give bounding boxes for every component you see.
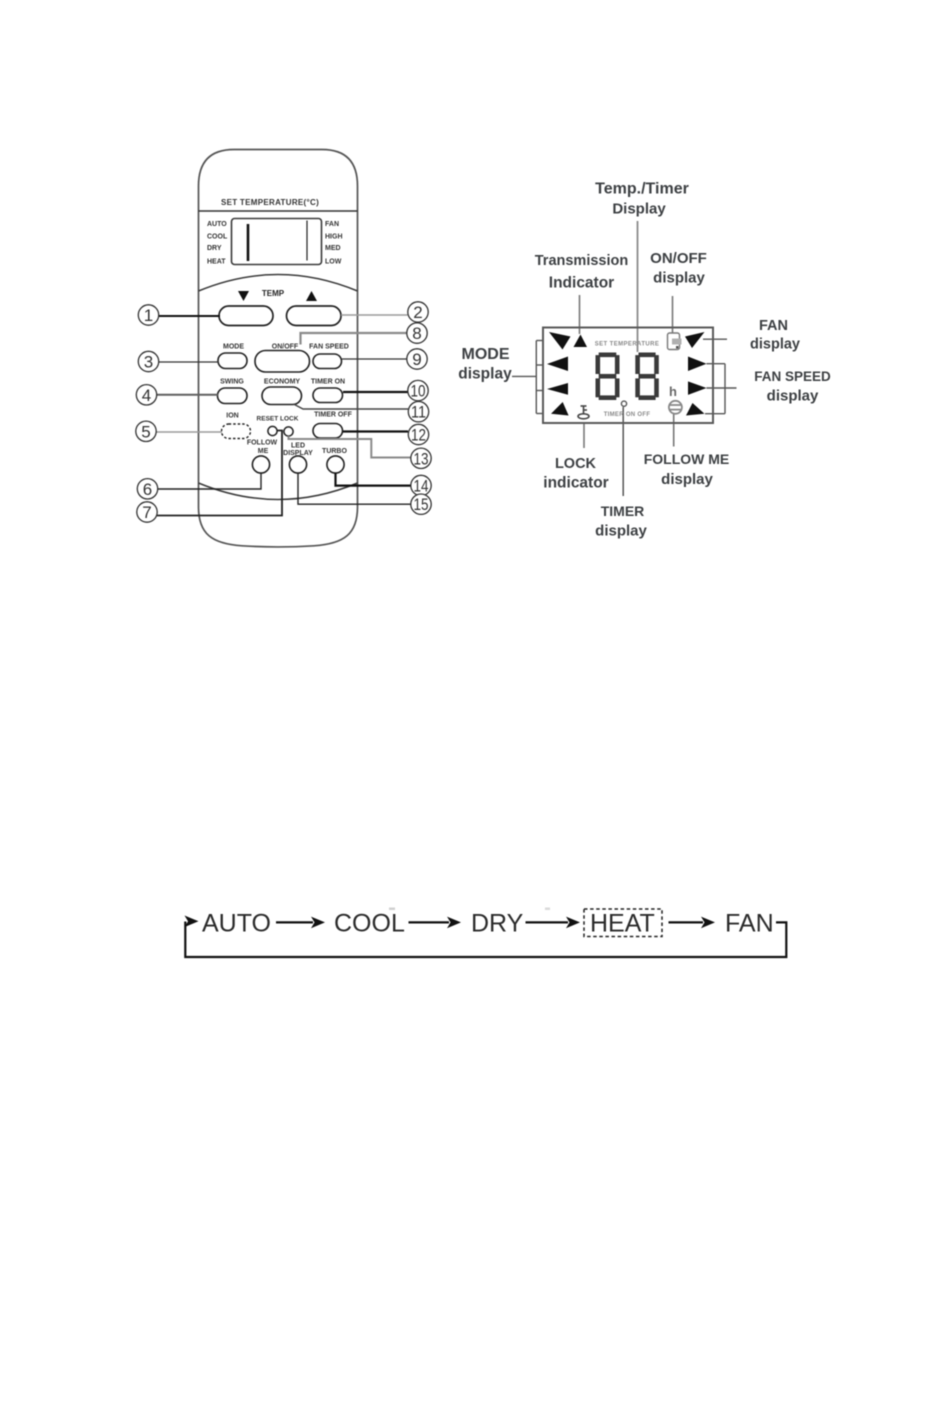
svg-text:FAN SPEED: FAN SPEED — [754, 369, 831, 384]
svg-text:FAN SPEED: FAN SPEED — [309, 344, 349, 351]
svg-text:ME: ME — [258, 448, 269, 455]
callout line 13 — [289, 436, 411, 458]
svg-text:display: display — [653, 270, 705, 287]
Transmission Indicator label — [535, 253, 628, 292]
ON/OFF display label — [650, 250, 707, 287]
callout line 14 — [336, 473, 411, 486]
svg-text:LED: LED — [291, 443, 305, 450]
svg-text:Transmission: Transmission — [535, 253, 628, 269]
MODE button — [218, 353, 247, 369]
svg-text:9: 9 — [412, 350, 421, 369]
svg-text:TIMER: TIMER — [601, 503, 645, 519]
svg-text:5: 5 — [141, 422, 150, 441]
svg-text:TIMER OFF: TIMER OFF — [314, 412, 352, 419]
callout line 8 — [301, 333, 408, 345]
mode arrow bottom-left — [551, 402, 569, 416]
svg-text:display: display — [750, 337, 800, 353]
fan speed arrow right 3 — [688, 381, 707, 395]
svg-text:TIMER ON: TIMER ON — [311, 379, 345, 386]
arrow COOL to DRY — [409, 917, 462, 929]
FOLLOW ME icon — [669, 401, 682, 414]
callout line 6 — [158, 474, 261, 490]
svg-text:SET TEMPERATURE(°C): SET TEMPERATURE(°C) — [221, 198, 319, 207]
svg-text:HEAT: HEAT — [207, 258, 226, 265]
return loop line — [185, 922, 786, 958]
upper curved divider — [199, 275, 358, 292]
svg-text:FOLLOW: FOLLOW — [247, 440, 278, 447]
svg-text:FAN: FAN — [725, 910, 774, 938]
svg-text:TURBO: TURBO — [322, 448, 347, 455]
svg-text:DRY: DRY — [207, 245, 222, 252]
svg-text:h: h — [669, 384, 677, 399]
arrow AUTO to COOL — [276, 917, 325, 929]
callout line 11 — [294, 404, 409, 409]
LOCK indicator label — [543, 456, 608, 492]
svg-text:11: 11 — [411, 403, 426, 422]
svg-text:AUTO: AUTO — [207, 221, 227, 228]
faint scan speck left — [389, 908, 395, 911]
svg-text:TIMER ON OFF: TIMER ON OFF — [604, 412, 651, 418]
callout line 1 — [159, 315, 221, 317]
svg-text:ION: ION — [226, 413, 238, 420]
display separator line — [306, 221, 308, 261]
fan speed arrow right 2 — [688, 357, 707, 372]
svg-text:display: display — [767, 388, 819, 405]
temp up triangle — [306, 291, 317, 301]
lock indicator glyph — [578, 406, 589, 419]
display digit bar — [247, 224, 250, 261]
LED DISPLAY button — [289, 456, 306, 473]
svg-text:LOW: LOW — [325, 258, 342, 265]
svg-text:ON/OFF: ON/OFF — [272, 344, 299, 351]
transmission indicator triangle — [574, 335, 588, 348]
svg-text:Indicator: Indicator — [549, 275, 614, 292]
TIMER display label — [595, 503, 647, 540]
svg-text:8: 8 — [412, 324, 421, 343]
svg-text:MED: MED — [325, 245, 341, 252]
mode arrow top-left — [549, 332, 571, 350]
svg-text:12: 12 — [411, 426, 426, 445]
svg-text:COOL: COOL — [334, 910, 405, 938]
fan speed arrow bottom-right — [686, 403, 705, 416]
FAN callout line — [703, 338, 727, 340]
TURBO button — [327, 456, 344, 473]
MODE display label — [458, 346, 512, 383]
TIMER callout line — [622, 407, 624, 496]
ION button dashed — [222, 424, 251, 439]
FOLLOW ME callout line — [673, 414, 675, 447]
svg-text:ECONOMY: ECONOMY — [264, 379, 301, 386]
ON/OFF display icon — [668, 333, 682, 350]
return loop arrowhead — [185, 916, 199, 928]
svg-text:3: 3 — [144, 353, 153, 372]
divider line under SET TEMPERATURE — [199, 210, 358, 212]
svg-text:COOL: COOL — [207, 233, 228, 240]
FAN display label — [750, 318, 800, 353]
svg-text:15: 15 — [414, 495, 429, 514]
svg-text:10: 10 — [411, 382, 426, 401]
svg-text:MODE: MODE — [462, 346, 510, 363]
svg-text:RESET LOCK: RESET LOCK — [257, 416, 299, 423]
faint scan speck right — [545, 908, 550, 911]
ECONOMY button — [262, 387, 302, 405]
FAN SPEED display label — [754, 369, 831, 405]
LOCK button — [284, 427, 293, 436]
temp up button — [287, 306, 342, 326]
HEAT dashed box — [584, 909, 662, 937]
svg-text:SWING: SWING — [220, 379, 244, 386]
digit 8 second — [635, 353, 659, 401]
LOCK callout line — [583, 423, 585, 449]
FAN SPEED bracket — [705, 364, 737, 414]
LCD panel rect — [543, 328, 713, 424]
bottom curved line — [199, 483, 358, 500]
fan arrow top-right — [685, 332, 705, 348]
svg-text:MODE: MODE — [223, 344, 244, 351]
svg-text:SET TEMPERATURE: SET TEMPERATURE — [595, 342, 660, 348]
callout line 12 — [343, 430, 408, 432]
svg-text:AUTO: AUTO — [202, 910, 271, 938]
svg-text:TEMP: TEMP — [262, 289, 285, 298]
svg-text:display: display — [661, 471, 713, 488]
ON/OFF button — [255, 351, 310, 373]
display fan labels right — [325, 221, 343, 266]
svg-text:13: 13 — [414, 449, 429, 468]
FAN SPEED button — [313, 354, 342, 369]
svg-text:ON/OFF: ON/OFF — [650, 250, 707, 267]
RESET button — [268, 426, 277, 435]
MODE bracket — [512, 341, 544, 414]
svg-text:1: 1 — [144, 306, 153, 325]
FOLLOW ME display label — [644, 451, 730, 488]
callout line 2 — [341, 314, 408, 316]
svg-text:FOLLOW ME: FOLLOW ME — [644, 451, 730, 467]
mode arrow left 3 — [547, 383, 568, 395]
svg-text:DRY: DRY — [471, 910, 524, 938]
Transmission callout line — [579, 295, 581, 334]
FOLLOW ME button — [252, 456, 269, 473]
arrow HEAT to FAN — [669, 917, 716, 929]
display rectangle — [232, 219, 322, 265]
svg-text:6: 6 — [143, 480, 152, 499]
svg-text:Display: Display — [612, 201, 666, 218]
remote body outline — [199, 150, 358, 547]
TIMER OFF button — [313, 424, 343, 439]
svg-text:2: 2 — [413, 303, 422, 322]
svg-text:7: 7 — [142, 503, 151, 522]
ON/OFF callout line — [672, 296, 674, 333]
TIMER ON button — [313, 388, 343, 403]
temp down triangle — [238, 291, 249, 301]
callout line 15 — [298, 473, 411, 504]
svg-text:display: display — [458, 366, 512, 383]
display mode labels left — [207, 221, 228, 266]
temp down button — [219, 306, 273, 326]
svg-text:indicator: indicator — [543, 475, 608, 492]
callout line 7 — [156, 431, 282, 516]
svg-text:display: display — [595, 523, 647, 540]
arrow DRY to HEAT — [526, 917, 581, 929]
svg-text:4: 4 — [142, 386, 151, 405]
svg-text:LOCK: LOCK — [555, 456, 597, 472]
Temp./Timer callout line — [637, 221, 639, 352]
svg-text:Temp./Timer: Temp./Timer — [595, 181, 689, 198]
callout line 4 — [157, 394, 218, 396]
callout line 10 — [343, 391, 408, 393]
callout line 9 — [342, 358, 407, 360]
svg-text:14: 14 — [414, 477, 429, 496]
callout circles 1-15 — [136, 302, 431, 522]
svg-text:HEAT: HEAT — [590, 910, 655, 938]
callout line 3 — [159, 361, 219, 363]
timer dot — [621, 401, 626, 406]
mode arrow left 2 — [547, 357, 568, 372]
svg-text:FAN: FAN — [325, 221, 339, 228]
digit 8 first — [596, 353, 620, 401]
callout line 5 — [157, 431, 223, 433]
SWING button — [218, 388, 248, 404]
Temp./Timer Display label — [595, 181, 689, 218]
svg-text:HIGH: HIGH — [325, 233, 343, 240]
svg-text:FAN: FAN — [759, 318, 788, 334]
